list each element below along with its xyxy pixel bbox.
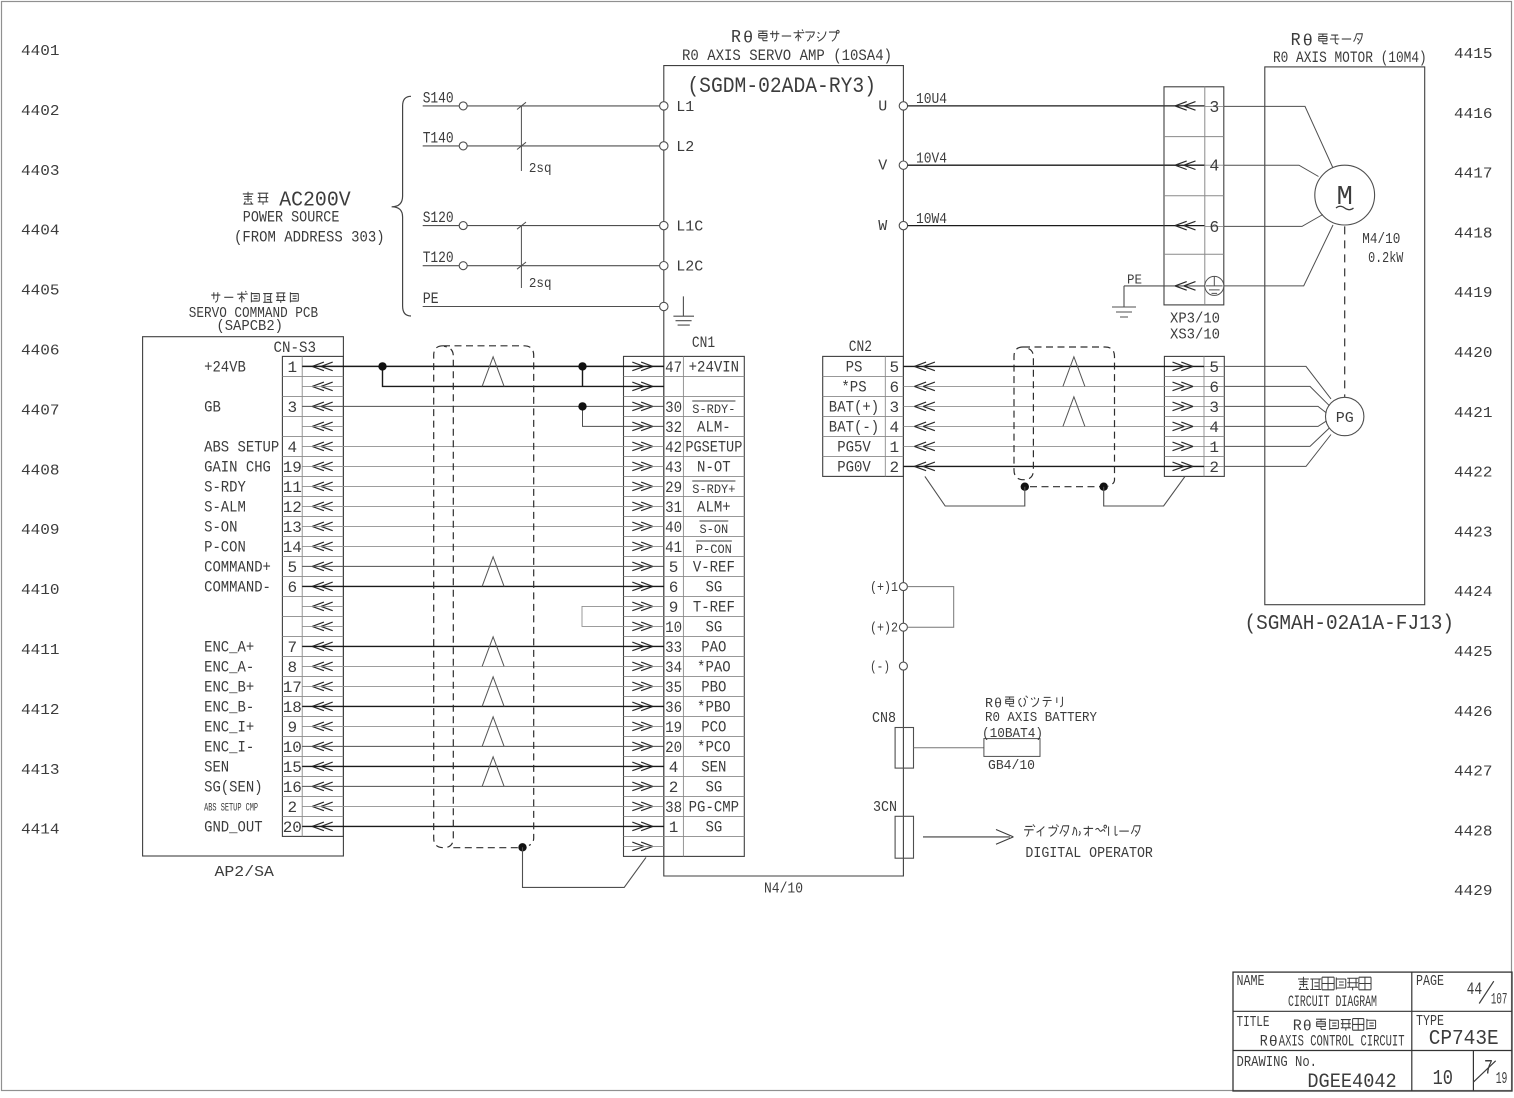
svg-text:3: 3 [890,399,900,417]
svg-text:4404: 4404 [21,223,60,240]
svg-text:CIRCUIT DIAGRAM: CIRCUIT DIAGRAM [1288,993,1377,1011]
svg-text:5: 5 [1209,359,1219,377]
wire shield drain encoder side [1104,476,1185,506]
cable shield CN2/encoder (dashed) [1023,347,1115,486]
svg-text:4402: 4402 [21,103,60,120]
svg-text:+24VIN: +24VIN [689,359,739,377]
amp terminal L1 [660,99,695,116]
svg-text:31: 31 [665,499,682,517]
svg-text:ENC_A-: ENC_A- [204,659,254,677]
junction dot GB [578,402,586,410]
amp terminal L1C [660,219,704,236]
svg-text:TITLE: TITLE [1237,1014,1270,1031]
label servo amp japanese title [731,28,839,49]
svg-text:4410: 4410 [21,582,60,599]
svg-text:4414: 4414 [21,822,60,839]
svg-text:SG: SG [705,579,722,597]
svg-text:44: 44 [1467,980,1483,1000]
wire ENC_I+/PCO [302,725,664,727]
svg-text:PBO: PBO [701,679,726,697]
CN1 row 15 arrow [632,642,653,651]
ground chassis inside amp [673,296,694,325]
svg-text:SG: SG [705,819,722,837]
CN1 row 14 arrow [632,622,653,631]
svg-text:(FROM ADDRESS 303): (FROM ADDRESS 303) [234,229,385,247]
svg-text:SEN: SEN [204,759,229,777]
svg-text:2sq: 2sq [529,162,552,177]
wire gauge marker 2sq upper [517,102,552,177]
CN-S3 blank row 2 wire stub [302,385,343,387]
svg-text:4420: 4420 [1454,345,1493,362]
CN-S3 blank row 14 wire stub [302,625,343,627]
svg-text:42: 42 [665,439,682,457]
connector XP3/XS3 power table [1164,87,1224,305]
svg-text:CN2: CN2 [849,338,872,356]
svg-text:20: 20 [283,819,302,837]
CN1 pin 43 N-OT [665,459,731,477]
junction dot +24VB right [578,362,586,370]
amp terminal V [878,158,907,175]
wire BAT(+) CN2 to encoder [903,402,1204,411]
CN1 row 22 arrow [632,782,653,791]
CN-S3 row 2 arrow [312,382,333,391]
CN-S3 pin 12 label S-ALM [204,499,302,517]
XP3 PE pin (earth symbol) [1205,276,1224,295]
svg-text:1: 1 [669,819,679,837]
CN1 row 5 arrow [632,442,653,451]
svg-text:PGSETUP: PGSETUP [685,439,742,457]
svg-text:1: 1 [287,359,297,377]
svg-text:29: 29 [665,479,682,497]
svg-text:AP2/SA: AP2/SA [215,864,274,881]
wire encoder pin 6 to PG [1224,386,1329,405]
connector CN2 table grid [823,356,904,476]
svg-text:4405: 4405 [21,283,60,300]
CN1 row 25 arrow [632,842,653,851]
svg-text:6: 6 [1209,379,1219,397]
svg-text:PAGE: PAGE [1416,973,1444,990]
svg-text:COMMAND+: COMMAND+ [204,559,271,577]
CN1 blank row 25 wire stub [624,845,664,847]
svg-text:35: 35 [665,679,682,697]
svg-text:PG5V: PG5V [837,439,871,457]
svg-text:4411: 4411 [21,642,60,659]
svg-text:+24VB: +24VB [204,359,246,377]
svg-text:47: 47 [665,359,682,377]
svg-text:4407: 4407 [21,402,60,419]
svg-text:R: R [985,696,994,712]
svg-text:10U4: 10U4 [916,91,947,108]
svg-text:43: 43 [665,459,682,477]
svg-text:4: 4 [669,759,679,777]
svg-text:30: 30 [665,399,682,417]
label motor japanese title [1291,31,1363,52]
wire PS CN2 to encoder [903,362,1204,371]
wire SEN/SEN [302,765,664,767]
twisted pair marker [482,677,504,707]
svg-text:BAT(-): BAT(-) [829,419,879,437]
svg-text:19: 19 [283,459,302,477]
XP3 pin 3 [1205,98,1224,117]
svg-text:PG-CMP: PG-CMP [689,799,739,817]
node S140 power input [423,89,660,110]
wire ENC_B+/PBO [302,685,664,687]
wire ENC_I-/*PCO [302,745,664,747]
svg-text:ENC_A+: ENC_A+ [204,639,254,657]
svg-text:33: 33 [665,639,682,657]
svg-text:AXIS CONTROL CIRCUIT: AXIS CONTROL CIRCUIT [1279,1032,1405,1050]
wire shield drain to CN1 [523,847,647,887]
svg-text:S140: S140 [423,89,454,107]
XS3 encoder pin 1 [1204,439,1224,457]
svg-text:S-ALM: S-ALM [204,499,246,517]
svg-text:4421: 4421 [1454,405,1493,422]
twisted pair marker PS [1063,357,1085,387]
twisted pair marker BAT [1063,397,1085,427]
CN-S3 row 1 arrow [312,362,333,371]
wire GB drop to ALM- [583,406,664,426]
arrow XP3 row U [1175,102,1196,111]
CN-S3 row 18 arrow [312,702,333,711]
wire ABS SETUP CMP/PG-CMP [302,805,664,807]
label XP3/10 XS3/10 [1170,312,1220,344]
CN1 row 23 arrow [632,802,653,811]
CN1 pin 40 S-ON [665,519,728,537]
svg-text:U: U [878,98,887,115]
svg-text:ABS SETUP CMP: ABS SETUP CMP [204,802,258,814]
servo amp U1 box (SGDM-02ADA-RY3) [664,66,904,876]
svg-text:T120: T120 [423,249,454,267]
svg-text:10: 10 [1433,1067,1453,1091]
CN2 pin 5 PS [846,359,900,377]
svg-text:R: R [1291,31,1301,51]
CN-S3 pin 3 label GB [204,399,297,417]
wire shield drain CN2 side [925,476,1025,506]
svg-text:PAO: PAO [701,639,726,657]
svg-text:R0 AXIS BATTERY: R0 AXIS BATTERY [985,711,1097,726]
CN-S3 pin 16 label SG(SEN) [204,779,302,797]
svg-text:PCO: PCO [701,719,726,737]
CN-S3 row 5 arrow [312,442,333,451]
svg-text:17: 17 [283,679,302,697]
CN-S3 row 17 arrow [312,682,333,691]
svg-text:5: 5 [669,559,679,577]
svg-text:GAIN CHG: GAIN CHG [204,459,271,477]
svg-text:XS3/10: XS3/10 [1170,328,1220,344]
connector CN8 [872,710,914,768]
svg-text:2: 2 [287,799,297,817]
svg-text:T140: T140 [423,129,454,147]
svg-text:M4/10: M4/10 [1362,231,1400,248]
CN-S3 row 8 arrow [312,502,333,511]
svg-text:3: 3 [287,399,297,417]
ground symbol at PE [1112,286,1136,317]
CN1 row 12 arrow [632,582,653,591]
CN-S3 pin 8 label ENC_A- [204,659,297,677]
CN2 pin 2 PG0V [837,459,899,477]
amp terminal U [878,98,907,115]
svg-text:4416: 4416 [1454,106,1493,123]
wire BAT(-) CN2 to encoder [903,422,1204,431]
CN1 row 8 arrow [632,502,653,511]
CN1 row 7 arrow [632,482,653,491]
svg-text:4428: 4428 [1454,823,1493,840]
amp terminal PE [660,302,668,310]
CN-S3 row 7 arrow [312,482,333,491]
svg-text:ALM+: ALM+ [697,499,731,517]
XS3 encoder pin 6 [1204,379,1224,397]
svg-text:POWER SOURCE: POWER SOURCE [243,209,340,227]
CN-S3 pin 19 label GAIN CHG [204,459,302,477]
amp terminal L2C [660,259,704,276]
CN-S3 row 16 arrow [312,662,333,671]
CN-S3 row 24 arrow [312,822,333,831]
wire ENC_A-/*PAO [302,665,664,667]
CN1 pin 42 PGSETUP [665,439,742,457]
junction dot +24VB left [378,362,386,370]
svg-text:2sq: 2sq [529,277,552,292]
cable shield CN-S3/CN1 (dashed) [443,346,534,846]
svg-text:(10BAT4): (10BAT4) [982,727,1043,742]
CN1 pin 1 SG [669,819,722,837]
label POWER SOURCE AC200V [234,190,385,247]
svg-text:19: 19 [665,719,682,737]
svg-text:T-REF: T-REF [693,599,735,617]
svg-text:4401: 4401 [21,43,60,60]
svg-text:(-): (-) [870,660,890,676]
wire 10V4 amp to connector XP3 [908,150,1205,167]
amp battery terminal (+)2 [870,621,907,637]
CN-S3 row 20 arrow [312,742,333,751]
svg-text:4415: 4415 [1454,46,1493,63]
label DIGITAL OPERATOR japanese [1024,825,1035,837]
servo command PCB box (SAPCB2) [143,337,344,856]
CN1 pin 20 *PCO [665,739,731,757]
svg-text:PG0V: PG0V [837,459,871,477]
wire PG5V CN2 to encoder [903,442,1204,451]
svg-text:S-RDY: S-RDY [204,479,246,497]
svg-text:4408: 4408 [21,462,60,479]
node PE power input [423,290,660,308]
svg-text:*PBO: *PBO [697,699,731,717]
svg-text:4406: 4406 [21,343,60,360]
amp battery terminal (-) [870,660,907,676]
CN1 row 21 arrow [632,762,653,771]
svg-text:ENC_B+: ENC_B+ [204,679,254,697]
CN-S3 pin 13 label S-ON [204,519,302,537]
svg-text:V: V [878,158,887,175]
svg-text:P-CON: P-CON [696,543,732,557]
title block PAGE cell [1416,973,1507,1009]
svg-text:*PAO: *PAO [697,659,731,677]
svg-text:ENC_I+: ENC_I+ [204,719,254,737]
svg-text:4413: 4413 [21,762,60,779]
wire +24VB/+24VIN [302,365,664,367]
svg-text:8: 8 [287,659,297,677]
twisted pair marker [482,557,504,587]
svg-text:CN1: CN1 [692,334,715,352]
brace power source group [392,96,411,316]
svg-text:GB: GB [204,399,221,417]
XP3 pin 6 [1205,218,1224,237]
wire S-RDY/S-RDY+ [302,485,664,487]
wire 10U4 amp to connector XP3 [908,91,1205,108]
CN-S3 pin 20 label GND_OUT [204,819,302,837]
svg-text:4: 4 [890,419,900,437]
wire encoder pin 2 to PG [1224,435,1331,467]
svg-text:4426: 4426 [1454,704,1493,721]
svg-text:10: 10 [665,619,682,637]
svg-text:CN8: CN8 [872,710,896,727]
amp terminal L2 [660,139,695,156]
wire COMMAND+/V-REF [302,565,664,567]
svg-text:PE: PE [423,290,439,308]
wire T120 to amp terminal [467,265,659,267]
node T140 power input [423,129,660,150]
CN-S3 pin 9 label ENC_I+ [204,719,297,737]
svg-text:GND_OUT: GND_OUT [204,819,262,837]
CN-S3 row 12 arrow [312,582,333,591]
svg-text:4425: 4425 [1454,644,1493,661]
CN-S3 row 19 arrow [312,722,333,731]
wire ABS SETUP/PGSETUP [302,445,664,447]
svg-text:W: W [878,218,887,235]
svg-text:θ: θ [743,30,753,49]
svg-text:S-ON: S-ON [699,523,728,537]
CN1 pin 19 PCO [665,719,726,737]
svg-text:NAME: NAME [1237,973,1265,990]
wire encoder pin 4 to PG [1224,421,1326,427]
wire PE to amp terminal [423,306,660,308]
CN-S3 pin 17 label ENC_B+ [204,679,302,697]
svg-text:2: 2 [669,779,679,797]
CN-S3 pin 10 label ENC_I- [204,739,302,757]
svg-text:38: 38 [665,799,682,817]
svg-text:COMMAND-: COMMAND- [204,579,271,597]
CN-S3 row 15 arrow [312,642,333,651]
wire S-ALM/ALM+ [302,505,664,507]
svg-text:4412: 4412 [21,702,60,719]
connector CN-S3 table grid [282,356,343,836]
wire T-REF/SG loop [582,606,664,626]
CN1 row 19 arrow [632,722,653,731]
CN2 pin 6 *PS [841,379,899,397]
svg-text:16: 16 [283,779,302,797]
svg-text:4418: 4418 [1454,225,1493,242]
svg-text:10W4: 10W4 [916,211,947,228]
svg-text:2: 2 [1209,459,1219,477]
node T120 power input [423,249,660,270]
label M4/10 0.2kW [1362,231,1403,267]
CN1 row 16 arrow [632,662,653,671]
label RO AXIS BATTERY (10BAT4) GB4/10 [982,696,1097,774]
CN-S3 row 11 arrow [312,562,333,571]
wire jumper +24V pair row2 [383,366,664,386]
dashed shaft motor to encoder PG [1344,226,1346,397]
CN1 row 24 arrow [632,822,653,831]
svg-text:R0 AXIS SERVO AMP (10SA4): R0 AXIS SERVO AMP (10SA4) [682,47,892,65]
svg-text:DRAWING No.: DRAWING No. [1237,1054,1318,1071]
wire ENC_B-/*PBO [302,705,664,707]
svg-text:0.2kW: 0.2kW [1368,250,1403,267]
svg-text:PS: PS [846,359,863,377]
svg-text:*PCO: *PCO [697,739,731,757]
CN-S3 row 22 arrow [312,782,333,791]
svg-text:CP743E: CP743E [1429,1027,1499,1051]
svg-text:4422: 4422 [1454,465,1493,482]
wire COMMAND-/SG [302,585,664,587]
XS3 encoder pin 4 [1204,419,1224,437]
svg-text:(SGMAH-02A1A-FJ13): (SGMAH-02A1A-FJ13) [1245,613,1455,636]
svg-text:3: 3 [1209,399,1219,417]
CN1 row 18 arrow [632,702,653,711]
wire XP3 pin6 to motor [1224,215,1323,227]
CN1 row 6 arrow [632,462,653,471]
svg-text:36: 36 [665,699,682,717]
wire encoder pin 5 to PG [1224,366,1331,399]
XS3 encoder pin 5 [1204,359,1224,377]
svg-text:R: R [1260,1032,1268,1050]
wire XP3 pin3 to motor [1224,106,1333,168]
wire encoder pin 3 to PG [1224,406,1326,413]
svg-text:1: 1 [890,439,900,457]
CN-S3 pin 15 label SEN [204,759,302,777]
svg-text:2: 2 [890,459,900,477]
title block TITLE cell [1237,1014,1405,1051]
CN-S3 row 6 arrow [312,462,333,471]
junction dot shield left [1021,483,1029,491]
svg-text:15: 15 [283,759,302,777]
CN-S3 row 14 arrow [312,622,333,631]
CN1 pin 10 SG [665,619,722,637]
svg-text:4417: 4417 [1454,166,1493,183]
XS3 encoder pin 3 [1204,399,1224,417]
svg-text:P-CON: P-CON [204,539,246,557]
wire gauge marker 2sq lower [517,222,552,292]
twisted pair marker [482,757,504,787]
svg-text:SG: SG [705,779,722,797]
svg-text:32: 32 [665,419,682,437]
svg-text:4409: 4409 [21,522,60,539]
XS3 encoder pin 2 [1204,459,1224,477]
twisted pair marker [482,357,504,387]
title block NAME cell [1237,973,1378,1011]
CN2 pin 3 BAT(+) [829,399,899,417]
twisted pair marker [482,717,504,747]
CN-S3 row 9 arrow [312,522,333,531]
CN-S3 pin 4 label ABS SETUP [204,439,297,457]
svg-text:ENC_B-: ENC_B- [204,699,254,717]
CN-S3 blank row 13 wire stub [302,605,343,607]
title block [1233,972,1512,1091]
XP3 pin 4 [1205,157,1224,176]
svg-text:11: 11 [283,479,302,497]
CN1 pin 34 *PAO [665,659,731,677]
CN-S3 blank row 4 wire stub [302,425,343,427]
CN1 pin 5 V-REF [669,559,735,577]
CN2 pin 4 BAT(-) [829,419,899,437]
svg-text:N4/10: N4/10 [764,881,803,898]
svg-text:9: 9 [287,719,297,737]
svg-text:DGEE4042: DGEE4042 [1307,1071,1396,1093]
svg-text:14: 14 [283,539,302,557]
svg-text:18: 18 [283,699,302,717]
CN1 pin 4 SEN [669,759,727,777]
CN1 row 4 arrow [632,422,653,431]
wire *PS CN2 to encoder [903,382,1204,391]
svg-text:4427: 4427 [1454,764,1493,781]
CN-S3 pin 7 label ENC_A+ [204,639,297,657]
